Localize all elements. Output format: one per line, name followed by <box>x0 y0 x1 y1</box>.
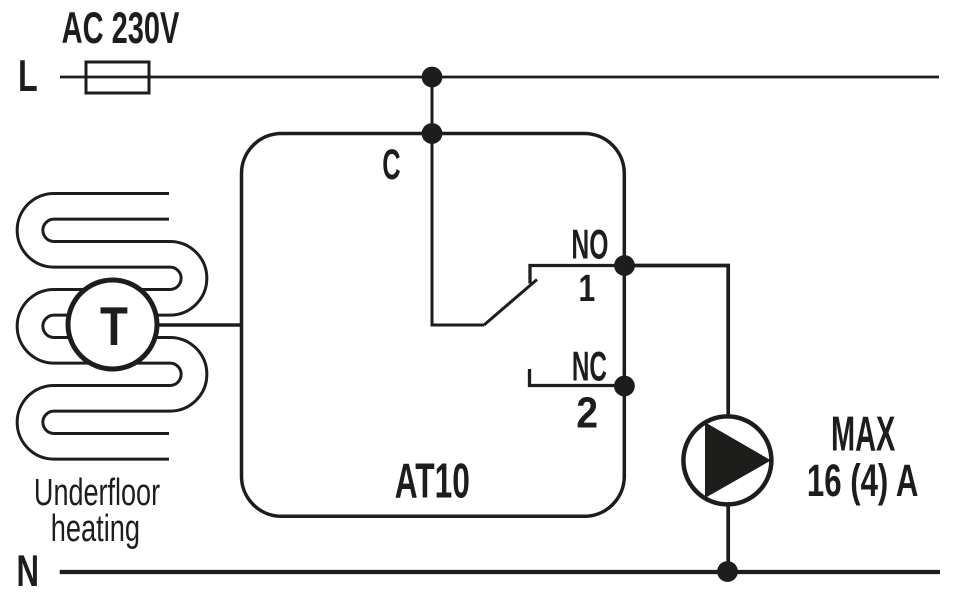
junction dot at C terminal <box>422 123 443 144</box>
svg-text:16 (4) A: 16 (4) A <box>807 456 918 506</box>
junction dot on L line <box>422 67 443 88</box>
svg-text:C: C <box>382 141 400 189</box>
svg-text:NC: NC <box>572 344 607 390</box>
wire NO to pump <box>624 266 728 417</box>
svg-text:1: 1 <box>578 268 595 310</box>
heating coil (underfloor heating serpentine pipe) <box>30 206 194 446</box>
svg-text:T: T <box>100 295 128 357</box>
fuse <box>86 62 149 93</box>
AT10 thermostat box <box>242 134 625 517</box>
svg-text:L: L <box>18 52 38 101</box>
svg-text:N: N <box>17 547 39 597</box>
switch NC fixed contact <box>530 369 625 386</box>
wire pump to N line <box>726 504 730 572</box>
wire from thermostat sensor to AT10 box <box>150 323 242 327</box>
switch blade <box>484 280 537 326</box>
thermostat sensor circle <box>68 280 157 369</box>
junction dot NC <box>614 376 635 397</box>
junction dot on N line <box>717 561 738 582</box>
svg-text:AC 230V: AC 230V <box>62 3 180 53</box>
svg-text:MAX: MAX <box>831 405 895 461</box>
wire from L down through C into switch common <box>432 77 484 325</box>
pump impeller triangle <box>705 422 771 498</box>
wire N line <box>60 570 940 574</box>
wire L line <box>60 76 939 79</box>
svg-text:heating: heating <box>51 507 140 549</box>
svg-text:NO: NO <box>571 222 608 268</box>
svg-text:AT10: AT10 <box>395 453 470 508</box>
svg-text:2: 2 <box>576 387 598 437</box>
pump M1 circle <box>683 416 771 504</box>
switch NO fixed contact <box>530 266 624 284</box>
label Underfloor heating <box>34 470 160 549</box>
junction dot NO <box>614 255 635 276</box>
